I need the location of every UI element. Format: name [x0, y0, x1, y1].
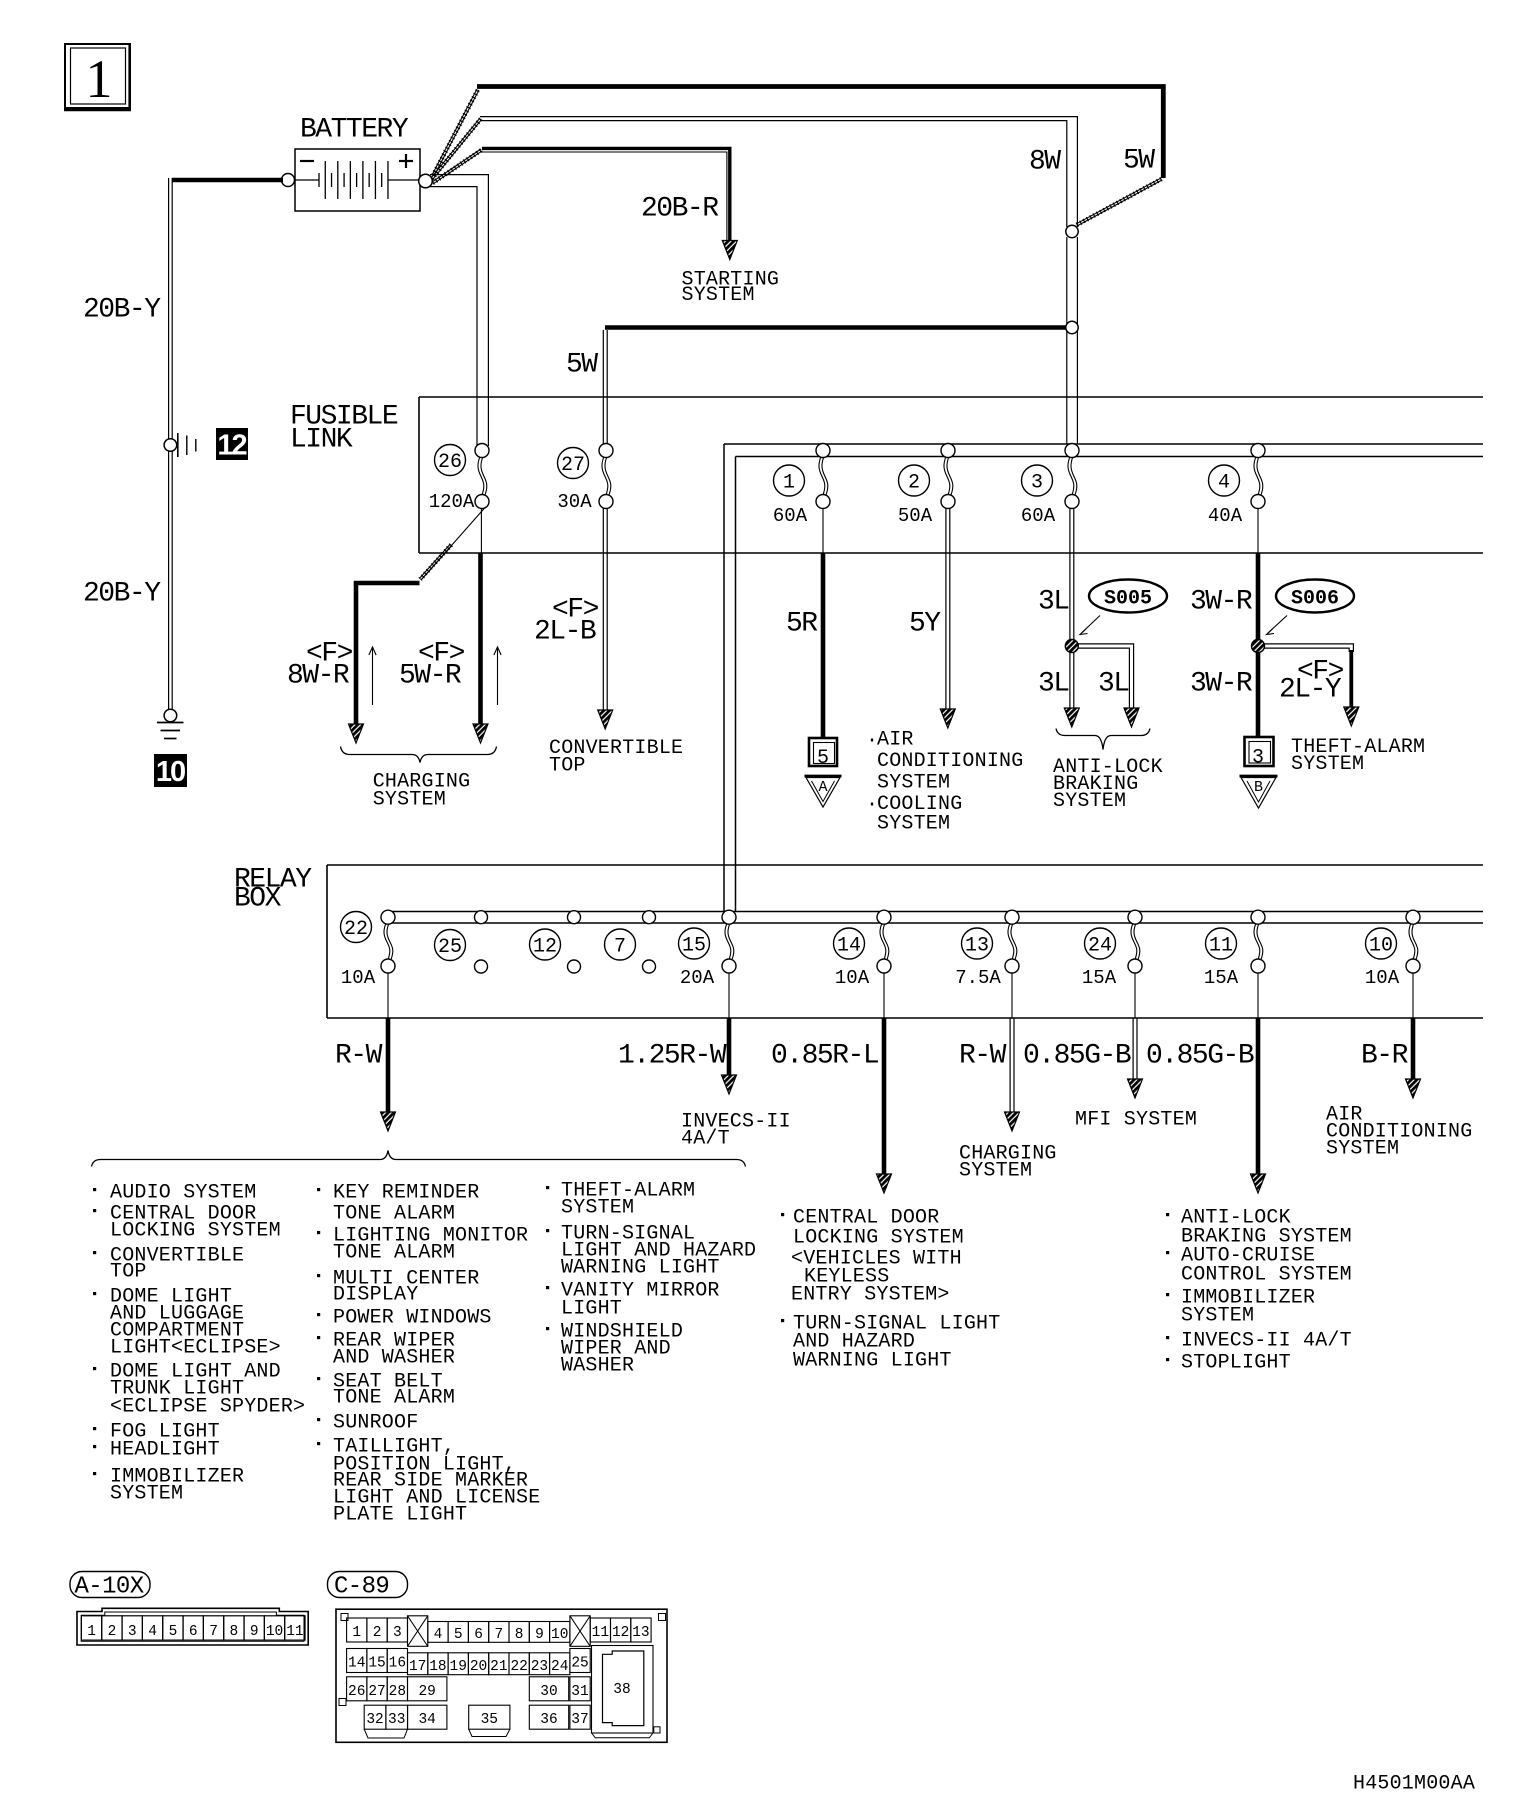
- relay box fuse position 25: [435, 911, 488, 973]
- text charging system right: [959, 1143, 1057, 1183]
- text charging system: [373, 771, 471, 812]
- svg-text:13: 13: [632, 1625, 649, 1641]
- svg-text:7: 7: [494, 1627, 503, 1643]
- label 1.25R-W: [618, 1040, 727, 1071]
- relay box fuse 11 15A: [1204, 910, 1265, 1018]
- relay box fuse position 7: [605, 911, 656, 973]
- wire 0.85R-L from fuse 14: [877, 1018, 892, 1193]
- label 5W: [1123, 145, 1155, 176]
- wire 5W cross feed to fuse 27: [605, 325, 1066, 330]
- label 20B-R: [641, 193, 719, 224]
- svg-text:5Y: 5Y: [909, 608, 941, 639]
- svg-text:31: 31: [571, 1684, 588, 1700]
- svg-text:HEADLIGHT: HEADLIGHT: [110, 1439, 220, 1462]
- junction node 5W branch: [1066, 321, 1078, 333]
- svg-text:WASHER: WASHER: [561, 1355, 634, 1378]
- svg-text:60A: 60A: [773, 505, 808, 527]
- svg-text:2: 2: [908, 472, 920, 495]
- connector number box 12: [216, 428, 248, 462]
- label 0.85G-B fuse 24: [1023, 1040, 1131, 1071]
- svg-text:SYSTEM: SYSTEM: [1326, 1138, 1399, 1161]
- svg-text:LOCKING SYSTEM: LOCKING SYSTEM: [793, 1227, 964, 1250]
- svg-text:10A: 10A: [835, 967, 870, 989]
- svg-text:SYSTEM: SYSTEM: [959, 1160, 1032, 1183]
- svg-text:10: 10: [551, 1627, 568, 1643]
- takeoff triangle B: [1240, 776, 1278, 808]
- svg-text:0.85R-L: 0.85R-L: [771, 1040, 879, 1071]
- wire 5R to connector 5: [822, 508, 824, 738]
- svg-text:B-R: B-R: [1361, 1040, 1409, 1071]
- current arrow 8W-R: [369, 647, 376, 705]
- junction node battery feed: [1066, 225, 1078, 237]
- svg-text:AND WASHER: AND WASHER: [333, 1347, 455, 1370]
- svg-text:20B-Y: 20B-Y: [83, 578, 161, 609]
- fusible link fuse 1 60A: [773, 444, 830, 528]
- svg-text:1: 1: [87, 1624, 96, 1640]
- connector box 3: [1245, 737, 1274, 770]
- svg-text:13: 13: [965, 935, 989, 958]
- wire splice hatch to 5W main: [432, 89, 479, 176]
- svg-text:19: 19: [450, 1659, 467, 1675]
- relay box fuse position 12: [530, 911, 581, 973]
- wire battery negative lead: [172, 178, 283, 183]
- label 20B-Y upper: [83, 294, 161, 325]
- svg-text:6: 6: [474, 1627, 483, 1643]
- svg-text:CONTROL SYSTEM: CONTROL SYSTEM: [1181, 1264, 1352, 1287]
- svg-text:0.85G-B: 0.85G-B: [1023, 1040, 1131, 1071]
- battery B1: [294, 149, 420, 211]
- wire 1.25R-W from fuse 15: [722, 1018, 737, 1094]
- svg-text:SYSTEM: SYSTEM: [110, 1483, 183, 1506]
- wire 5W drop to fuse 27: [603, 330, 607, 446]
- wire 0.85G-B from fuse 24: [1128, 1018, 1143, 1098]
- label 3W-R upper: [1190, 586, 1253, 617]
- text MFI system: [1075, 1109, 1197, 1132]
- svg-text:CONDITIONING: CONDITIONING: [877, 750, 1023, 773]
- svg-text:WARNING LIGHT: WARNING LIGHT: [793, 1350, 952, 1373]
- svg-text:TONE ALARM: TONE ALARM: [333, 1387, 455, 1410]
- splice S005: [1080, 580, 1167, 635]
- wire 8W-R to charging system: [349, 583, 420, 743]
- svg-text:18: 18: [429, 1659, 446, 1675]
- label F 2L-B: [534, 594, 599, 647]
- svg-text:LOCKING SYSTEM: LOCKING SYSTEM: [110, 1220, 281, 1243]
- label 0.85G-B fuse 11: [1146, 1040, 1254, 1071]
- svg-text:23: 23: [531, 1659, 548, 1675]
- text system list column 1: [93, 1182, 305, 1506]
- svg-text:TONE ALARM: TONE ALARM: [333, 1242, 455, 1265]
- svg-text:5: 5: [454, 1627, 463, 1643]
- relay box fuse 22 10A: [341, 910, 396, 1018]
- svg-text:15A: 15A: [1204, 967, 1239, 989]
- label F 5W-R: [399, 638, 465, 691]
- label F 2L-Y: [1279, 656, 1344, 705]
- text system list column 3: [546, 1180, 756, 1378]
- svg-text:30: 30: [540, 1684, 557, 1700]
- svg-text:25: 25: [571, 1656, 588, 1672]
- fusible link box: [419, 397, 1483, 553]
- svg-text:7.5A: 7.5A: [955, 967, 1001, 989]
- drawing number: [1353, 1773, 1475, 1796]
- svg-text:15: 15: [682, 935, 706, 958]
- svg-text:R-W: R-W: [959, 1040, 1007, 1071]
- svg-text:9: 9: [250, 1624, 259, 1640]
- text INVECS-II 4A/T: [681, 1111, 791, 1151]
- svg-text:20: 20: [470, 1659, 487, 1675]
- svg-text:20B-R: 20B-R: [641, 193, 719, 224]
- svg-text:24: 24: [1088, 935, 1112, 958]
- svg-text:32: 32: [366, 1712, 383, 1728]
- svg-text:10: 10: [1369, 935, 1393, 958]
- svg-text:11: 11: [286, 1624, 303, 1640]
- svg-text:50A: 50A: [898, 505, 933, 527]
- text anti-lock braking system: [1053, 756, 1163, 813]
- svg-text:B: B: [1254, 779, 1263, 796]
- connector label A-10X: [70, 1572, 150, 1601]
- svg-text:C-89: C-89: [334, 1574, 389, 1601]
- wire B-R from fuse 10: [1406, 1018, 1421, 1098]
- label 5R: [786, 608, 818, 639]
- svg-text:8: 8: [230, 1624, 239, 1640]
- svg-text:8W-R: 8W-R: [287, 660, 350, 691]
- svg-text:7: 7: [614, 936, 626, 959]
- svg-text:20B-Y: 20B-Y: [83, 294, 161, 325]
- svg-text:INVECS-II 4A/T: INVECS-II 4A/T: [1181, 1330, 1352, 1353]
- label R-W fuse 13: [959, 1040, 1007, 1071]
- svg-text:26: 26: [348, 1684, 365, 1700]
- relay box fuse 15 20A: [679, 910, 737, 1018]
- svg-text:11: 11: [592, 1625, 609, 1641]
- text convertible top: [549, 737, 683, 778]
- svg-text:10: 10: [266, 1624, 283, 1640]
- text air conditioning cooling system: [866, 729, 1023, 836]
- svg-text:DISPLAY: DISPLAY: [333, 1284, 418, 1307]
- svg-text:22: 22: [344, 918, 368, 941]
- wire 5W main feed (thick top run): [477, 87, 1163, 179]
- svg-text:14: 14: [837, 935, 861, 958]
- svg-text:36: 36: [540, 1712, 557, 1728]
- wire 3L branch right to ABS: [1078, 644, 1139, 727]
- svg-text:60A: 60A: [1021, 505, 1056, 527]
- wire 5Y to air conditioning: [940, 508, 955, 728]
- relay box fuse 13 7.5A: [955, 910, 1019, 1018]
- relay box fuse 10 10A: [1365, 910, 1420, 1018]
- battery positive terminal: [419, 174, 433, 188]
- battery label: [300, 114, 409, 145]
- svg-text:BATTERY: BATTERY: [300, 114, 409, 145]
- svg-text:2: 2: [373, 1625, 382, 1641]
- svg-text:29: 29: [418, 1684, 435, 1700]
- svg-text:3: 3: [1252, 747, 1264, 770]
- svg-text:37: 37: [571, 1712, 588, 1728]
- svg-text:24: 24: [551, 1659, 568, 1675]
- svg-text:4A/T: 4A/T: [681, 1128, 730, 1151]
- svg-text:SUNROOF: SUNROOF: [333, 1412, 418, 1435]
- svg-text:10A: 10A: [341, 967, 376, 989]
- brace anti-lock braking: [1056, 729, 1150, 750]
- svg-text:LIGHT: LIGHT: [561, 1298, 622, 1321]
- fusible link fuse 2 50A: [898, 444, 955, 528]
- svg-text:SYSTEM: SYSTEM: [1053, 790, 1126, 813]
- wire 3L continuation to ABS: [1064, 652, 1079, 727]
- svg-text:TOP: TOP: [110, 1261, 147, 1284]
- brace R-W system list: [92, 1151, 746, 1167]
- wire 20B-Y: [169, 178, 173, 709]
- svg-text:21: 21: [490, 1659, 507, 1675]
- svg-text:H4501M00AA: H4501M00AA: [1353, 1773, 1475, 1796]
- label 3L lower left: [1038, 668, 1069, 699]
- svg-text:2L-Y: 2L-Y: [1279, 674, 1342, 705]
- svg-text:S006: S006: [1291, 588, 1339, 611]
- svg-text:16: 16: [389, 1656, 406, 1672]
- svg-text:STOPLIGHT: STOPLIGHT: [1181, 1352, 1291, 1375]
- svg-text:<ECLIPSE SPYDER>: <ECLIPSE SPYDER>: [110, 1396, 305, 1419]
- svg-text:LINK: LINK: [290, 424, 353, 455]
- svg-text:6: 6: [189, 1624, 198, 1640]
- label fusible link: [290, 401, 398, 455]
- svg-text:4: 4: [1218, 472, 1230, 495]
- splice node S006: [1252, 640, 1265, 653]
- svg-text:SYSTEM: SYSTEM: [682, 284, 755, 307]
- svg-text:SYSTEM: SYSTEM: [877, 772, 950, 795]
- label relay box: [234, 864, 312, 914]
- connector C-89: [336, 1609, 667, 1742]
- wire junction feed down: [1067, 237, 1078, 444]
- svg-text:3L: 3L: [1098, 668, 1129, 699]
- fusible link fuse 27 30A: [557, 444, 613, 514]
- svg-text:5: 5: [169, 1624, 178, 1640]
- svg-text:33: 33: [388, 1712, 405, 1728]
- svg-text:KEY REMINDER: KEY REMINDER: [333, 1182, 479, 1205]
- svg-text:27: 27: [561, 454, 585, 477]
- svg-text:BOX: BOX: [234, 883, 282, 914]
- label 3W-R lower: [1190, 668, 1253, 699]
- fusible link fuse 3 60A: [1021, 444, 1079, 528]
- svg-text:7: 7: [209, 1624, 218, 1640]
- text system list column 2: [317, 1182, 540, 1527]
- svg-text:2: 2: [108, 1624, 117, 1640]
- svg-text:1: 1: [86, 49, 113, 109]
- svg-text:TOP: TOP: [549, 755, 586, 778]
- svg-text:38: 38: [613, 1682, 630, 1698]
- svg-text:11: 11: [1209, 935, 1233, 958]
- svg-text:27: 27: [368, 1684, 385, 1700]
- brace charging system: [341, 747, 497, 763]
- svg-text:SYSTEM: SYSTEM: [877, 813, 950, 836]
- svg-text:LIGHT<ECLIPSE>: LIGHT<ECLIPSE>: [110, 1337, 281, 1360]
- ground G1: [157, 709, 184, 738]
- svg-text:14: 14: [348, 1656, 365, 1672]
- takeoff triangle A: [805, 776, 842, 807]
- svg-text:2L-B: 2L-B: [534, 616, 596, 647]
- text air conditioning system right: [1326, 1104, 1472, 1161]
- svg-text:120A: 120A: [429, 491, 475, 513]
- wire splice hatch from 5W to junction: [1076, 178, 1162, 226]
- label 5W drop: [566, 349, 598, 380]
- svg-text:20A: 20A: [680, 967, 715, 989]
- label 3L upper: [1038, 586, 1069, 617]
- wire 20B-R to starting system: [482, 148, 737, 259]
- label 5Y: [909, 608, 941, 639]
- svg-text:1: 1: [783, 472, 795, 495]
- svg-text:SYSTEM: SYSTEM: [1291, 753, 1364, 776]
- label 20B-Y lower: [83, 578, 161, 609]
- svg-text:22: 22: [510, 1659, 527, 1675]
- wire 5W-R to charging system: [473, 508, 488, 743]
- battery negative terminal: [282, 174, 295, 187]
- svg-text:3: 3: [1031, 472, 1043, 495]
- svg-text:PLATE LIGHT: PLATE LIGHT: [333, 1504, 467, 1527]
- fusible link fuse 26 120A: [429, 444, 489, 514]
- splice node S005: [1065, 640, 1078, 653]
- relay box fuse 14 10A: [834, 910, 892, 1018]
- label B-R: [1361, 1040, 1409, 1071]
- svg-text:SYSTEM: SYSTEM: [561, 1197, 634, 1220]
- svg-text:3W-R: 3W-R: [1190, 586, 1253, 617]
- bus bar in fusible link box: [724, 444, 1483, 912]
- current arrow 5W-R: [494, 647, 501, 705]
- svg-text:POWER WINDOWS: POWER WINDOWS: [333, 1307, 492, 1330]
- svg-text:1: 1: [352, 1625, 361, 1641]
- label 3L lower right: [1098, 668, 1129, 699]
- svg-text:3L: 3L: [1038, 586, 1069, 617]
- fusible link fuse 4 40A: [1208, 444, 1265, 528]
- svg-text:ENTRY SYSTEM>: ENTRY SYSTEM>: [791, 1284, 950, 1307]
- connector A-10X: [77, 1608, 308, 1645]
- label F 8W-R: [287, 638, 353, 691]
- svg-text:34: 34: [418, 1712, 435, 1728]
- text system list central door keyless: [781, 1207, 1000, 1373]
- wire 2L-B to convertible top: [598, 508, 613, 729]
- ground number box 10: [154, 754, 187, 788]
- text system list abs immobilizer: [1166, 1207, 1352, 1375]
- svg-text:5W: 5W: [566, 349, 598, 380]
- svg-text:4: 4: [434, 1627, 443, 1643]
- svg-text:0.85G-B: 0.85G-B: [1146, 1040, 1254, 1071]
- svg-text:9: 9: [535, 1627, 544, 1643]
- relay box: [327, 865, 1483, 1018]
- label 8W: [1029, 146, 1061, 177]
- svg-text:8W: 8W: [1029, 146, 1061, 177]
- inline connector on 20B-Y: [164, 433, 196, 457]
- svg-text:WARNING LIGHT: WARNING LIGHT: [561, 1257, 720, 1280]
- connector label C-89: [328, 1572, 408, 1601]
- svg-text:5: 5: [817, 747, 829, 770]
- label R-W fuse 22: [335, 1040, 383, 1071]
- wire battery positive to fusible link 26: [430, 175, 488, 446]
- svg-text:12: 12: [533, 936, 557, 959]
- text theft-alarm system: [1291, 736, 1425, 776]
- connector box 5: [809, 738, 837, 770]
- wire 8W feed: [480, 117, 1077, 227]
- svg-text:MFI SYSTEM: MFI SYSTEM: [1075, 1109, 1197, 1132]
- svg-text:12: 12: [612, 1625, 629, 1641]
- svg-text:35: 35: [481, 1712, 498, 1728]
- svg-text:3: 3: [128, 1624, 137, 1640]
- svg-text:AIR: AIR: [877, 729, 914, 752]
- sheet number box 1: [64, 44, 131, 110]
- text starting system: [682, 269, 780, 308]
- bus bar in relay box: [384, 912, 1483, 924]
- splice S006: [1267, 580, 1355, 635]
- svg-text:5W-R: 5W-R: [399, 660, 462, 691]
- svg-text:25: 25: [438, 936, 462, 959]
- svg-text:3L: 3L: [1038, 668, 1069, 699]
- svg-text:10A: 10A: [1365, 967, 1400, 989]
- svg-text:A: A: [818, 779, 827, 796]
- wire fuse 26 output diagonal: [419, 507, 485, 580]
- wire splice hatch to 20B-R: [432, 149, 482, 184]
- wire R-W from fuse 13: [1005, 1018, 1020, 1131]
- svg-text:SYSTEM: SYSTEM: [1181, 1305, 1254, 1328]
- svg-text:15A: 15A: [1082, 967, 1117, 989]
- svg-text:26: 26: [438, 451, 462, 474]
- label 0.85R-L: [771, 1040, 879, 1071]
- wire R-W from fuse 22: [381, 1018, 396, 1131]
- svg-text:TONE ALARM: TONE ALARM: [333, 1203, 455, 1226]
- svg-text:SYSTEM: SYSTEM: [373, 789, 446, 812]
- svg-text:10: 10: [156, 756, 185, 788]
- svg-text:5W: 5W: [1123, 145, 1155, 176]
- svg-text:3: 3: [393, 1625, 402, 1641]
- relay box fuse 24 15A: [1082, 910, 1142, 1018]
- svg-text:4: 4: [148, 1624, 157, 1640]
- svg-text:30A: 30A: [557, 491, 592, 513]
- svg-text:1.25R-W: 1.25R-W: [618, 1040, 727, 1071]
- svg-text:15: 15: [368, 1656, 385, 1672]
- wire 0.85G-B from fuse 11: [1251, 1018, 1266, 1193]
- wire 2L-Y branch to theft alarm: [1264, 644, 1359, 726]
- svg-text:8: 8: [515, 1627, 524, 1643]
- svg-text:28: 28: [389, 1684, 406, 1700]
- wire 3W-R from fuse 4: [1257, 508, 1259, 737]
- svg-text:AUDIO SYSTEM: AUDIO SYSTEM: [110, 1182, 256, 1205]
- svg-text:5R: 5R: [786, 608, 818, 639]
- svg-text:S005: S005: [1104, 588, 1152, 611]
- svg-text:3W-R: 3W-R: [1190, 668, 1253, 699]
- svg-text:17: 17: [409, 1659, 426, 1675]
- svg-text:R-W: R-W: [335, 1040, 383, 1071]
- svg-text:A-10X: A-10X: [75, 1574, 144, 1601]
- svg-text:12: 12: [217, 430, 246, 462]
- wire 3L from fuse 3: [1070, 508, 1074, 640]
- wire splice hatch to 8W: [431, 118, 482, 179]
- svg-text:40A: 40A: [1208, 505, 1243, 527]
